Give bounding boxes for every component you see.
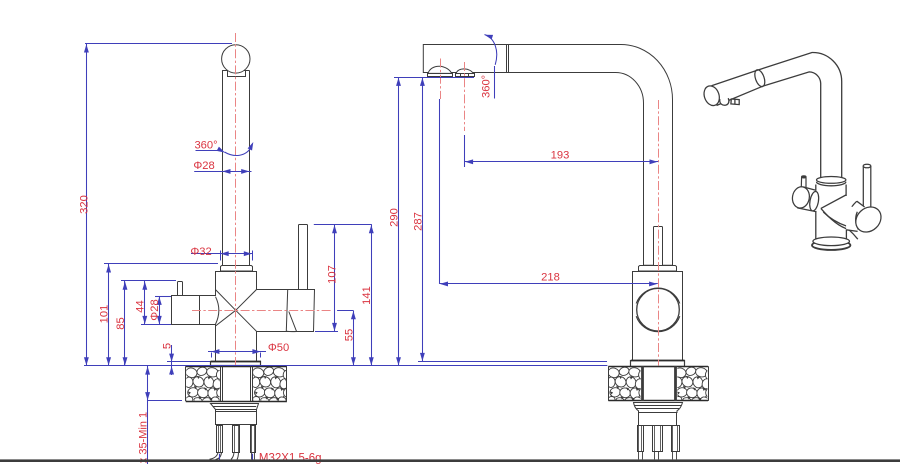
svg-text:85: 85 xyxy=(115,317,127,329)
svg-text:107: 107 xyxy=(326,265,338,284)
svg-text:218: 218 xyxy=(541,272,560,284)
svg-text:Φ32: Φ32 xyxy=(190,246,211,258)
svg-text:44: 44 xyxy=(135,300,147,312)
svg-text:360°: 360° xyxy=(480,75,492,98)
svg-text:Φ28: Φ28 xyxy=(193,160,214,172)
svg-text:193: 193 xyxy=(551,150,570,162)
svg-text:M32X1.5-6g: M32X1.5-6g xyxy=(259,453,322,464)
svg-text:101: 101 xyxy=(99,305,111,324)
svg-text:141: 141 xyxy=(361,286,373,305)
svg-text:287: 287 xyxy=(412,212,424,231)
svg-text:Φ50: Φ50 xyxy=(268,342,289,354)
svg-text:5: 5 xyxy=(162,343,174,349)
svg-text:x 35-Min 1: x 35-Min 1 xyxy=(138,412,150,463)
svg-text:55: 55 xyxy=(343,329,355,341)
svg-text:Φ28: Φ28 xyxy=(149,299,161,320)
svg-text:320: 320 xyxy=(79,195,91,214)
svg-text:360°: 360° xyxy=(194,139,217,151)
svg-text:290: 290 xyxy=(388,208,400,227)
